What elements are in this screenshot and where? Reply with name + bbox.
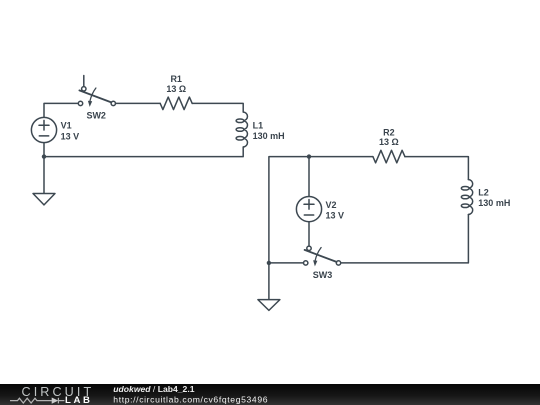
svg-text:LAB: LAB: [65, 395, 93, 405]
logo diode triangle: [52, 398, 59, 404]
wire R2 to L2: [405, 157, 469, 180]
wire to ground 1: [43, 157, 45, 194]
inductor L2: [461, 180, 472, 215]
wire V2 bottom: [308, 222, 310, 246]
voltage source V2: [296, 197, 321, 222]
svg-text:udokwed / Lab4_2.1: udokwed / Lab4_2.1: [113, 384, 194, 394]
svg-text:V1: V1: [61, 121, 72, 131]
ground 1: [33, 194, 55, 205]
svg-text:13 V: 13 V: [61, 131, 80, 141]
svg-text:SW2: SW2: [86, 111, 106, 121]
wire V1 top to SW2: [44, 103, 78, 117]
inductor L1: [236, 112, 247, 147]
node junction dot circuit1: [42, 154, 46, 158]
wire to ground 2: [268, 263, 270, 300]
wire L1 bottom rail: [44, 147, 243, 157]
resistor R1: [160, 97, 192, 110]
switch SW2: [78, 76, 115, 107]
wire bottom-left to SW3: [269, 262, 304, 264]
wire circuit2 top-left corner: [269, 157, 373, 263]
svg-text:130 mH: 130 mH: [253, 131, 285, 141]
wire V1 bottom: [43, 143, 45, 157]
node junction dot circuit2: [267, 261, 271, 265]
svg-text:13 Ω: 13 Ω: [166, 84, 186, 94]
wire SW2 to R1: [116, 102, 161, 104]
ground 2: [258, 300, 280, 311]
svg-text:R1: R1: [170, 74, 182, 84]
wire R1 to L1: [192, 103, 243, 112]
svg-text:V2: V2: [326, 200, 337, 210]
logo wire resistor diode: [10, 398, 64, 404]
switch SW3: [304, 246, 341, 266]
svg-text:13 Ω: 13 Ω: [379, 137, 399, 147]
footer bar: [0, 384, 540, 405]
svg-text:13 V: 13 V: [326, 211, 345, 221]
wire L2 bottom to SW3: [341, 215, 469, 263]
svg-text:http://circuitlab.com/cv6fqteg: http://circuitlab.com/cv6fqteg53496: [113, 394, 268, 404]
svg-text:L2: L2: [478, 188, 489, 198]
svg-text:L1: L1: [253, 121, 264, 131]
voltage source V1: [31, 117, 56, 142]
svg-text:R2: R2: [383, 128, 395, 138]
svg-text:SW3: SW3: [313, 270, 333, 280]
resistor R2: [373, 150, 405, 163]
svg-text:130 mH: 130 mH: [478, 198, 510, 208]
node junction dot V2 top: [307, 154, 311, 158]
wire V2 top: [308, 157, 310, 197]
